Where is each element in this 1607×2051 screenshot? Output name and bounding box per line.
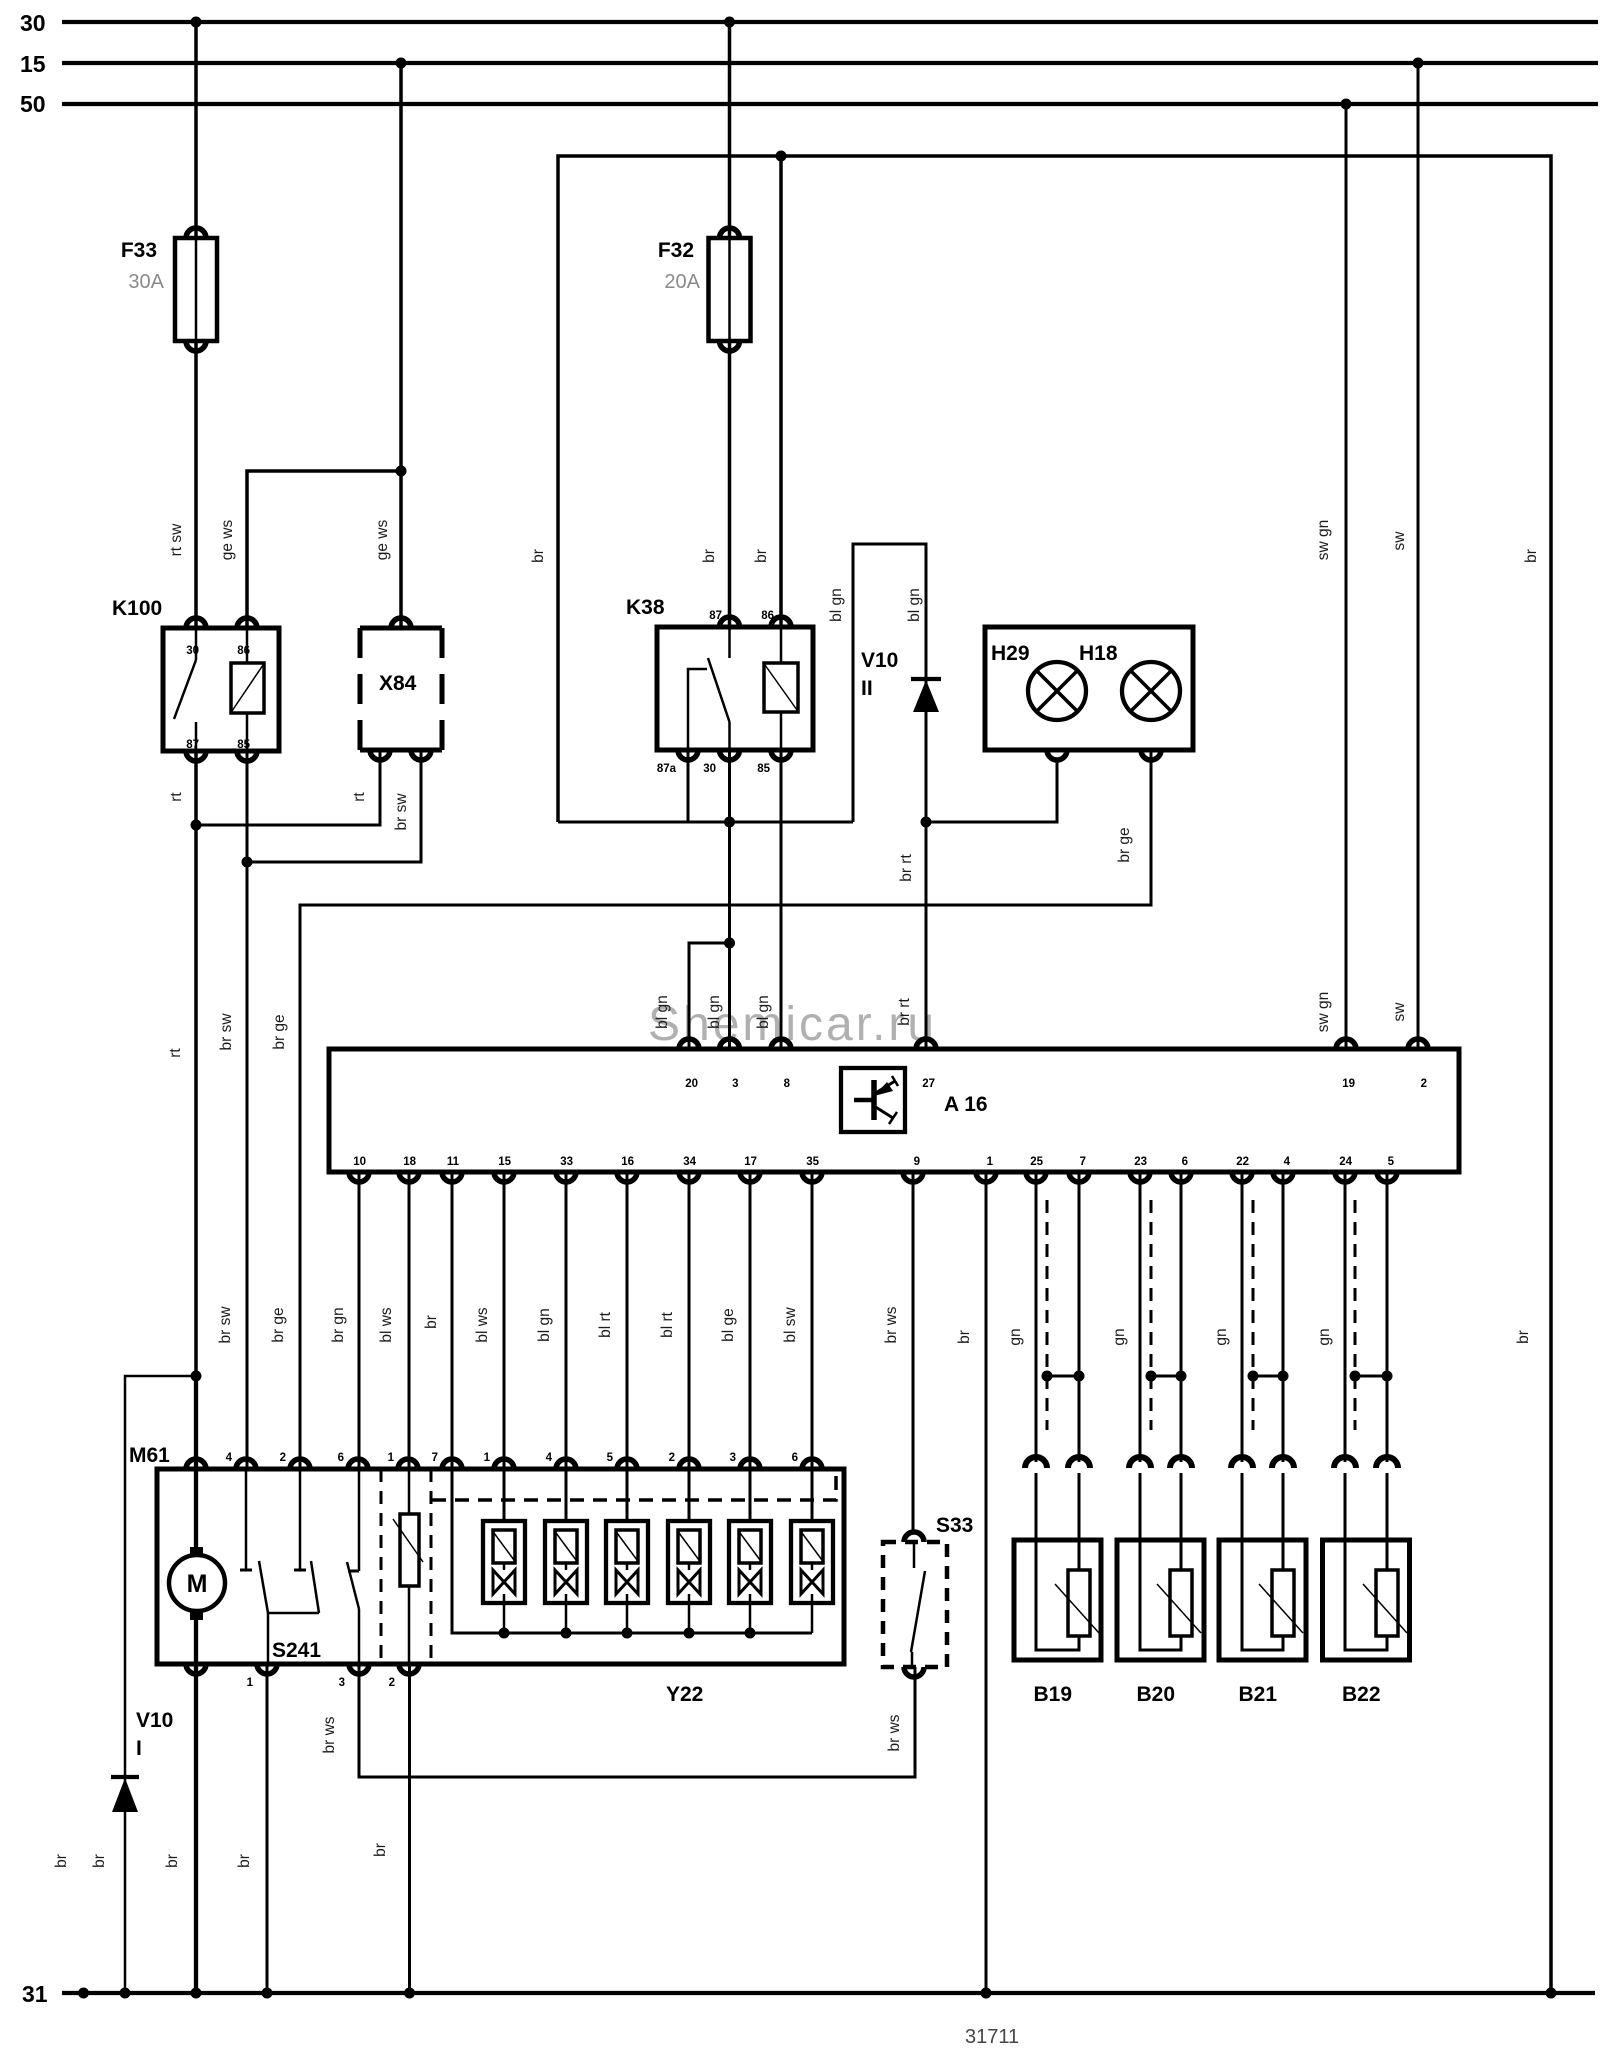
sensor B19 box [1014,1540,1101,1660]
V10 II branch [853,544,926,1049]
svg-text:22: 22 [1236,1156,1249,1168]
wire bl gn injector [565,1172,568,1469]
S241 contact 4 stub [245,1469,248,1570]
injector 5 wire bottom [749,1563,752,1570]
wire X84 left to rt [196,750,380,825]
svg-text:27: 27 [922,1078,935,1090]
K100 switch 87 stub [195,722,198,751]
lamp box H29 H18 [985,627,1193,750]
M61 top pin motor [186,1459,206,1469]
injector 2 coil [555,1530,577,1563]
A16 top pin 8 [771,1039,791,1049]
wire br ge from H18 [300,750,1151,1469]
svg-text:A 16: A 16 [944,1093,988,1116]
svg-text:Shemicar.ru: Shemicar.ru [648,998,937,1051]
injector 4 valve [678,1570,689,1594]
A16 transistor box [841,1068,905,1132]
svg-text:br rt: br rt [896,998,913,1026]
wire sw gn [1345,104,1348,1049]
H29 bottom pin [1047,750,1067,760]
S241 contact 2 stub [299,1469,302,1570]
svg-text:K38: K38 [626,596,665,619]
svg-text:bl sw: bl sw [782,1307,799,1343]
injector 1 wire bottom [503,1563,506,1570]
wire br pin11 [451,1172,454,1469]
wire K38-30 to A16 pin3 [728,750,731,1049]
A16 top pin 20 [679,1039,699,1049]
junction bus30/F32 [724,17,735,28]
A16 bottom pin 10 [349,1172,369,1182]
Y22 dashed boundary [432,1469,836,1500]
junction brsw/X84 [242,857,253,868]
fuse F32 inner wire [728,238,731,341]
svg-text:br: br [372,1843,389,1857]
svg-text:V10: V10 [136,1709,173,1732]
sensor B20 element [1170,1570,1192,1636]
injector 3 wire top [626,1469,629,1521]
svg-text:3: 3 [339,1677,345,1689]
junction bus31 x409 [404,1988,415,1999]
sensor B19 inner wires [1036,1540,1079,1650]
A16 top pin 19 [1336,1039,1356,1049]
A16 bottom pin 11 [442,1172,462,1182]
wire br gn pin10 [358,1172,361,1469]
K38 coil top stub [780,627,783,663]
svg-text:1: 1 [247,1677,254,1689]
svg-text:30A: 30A [128,271,164,293]
svg-text:bl gn: bl gn [706,995,723,1029]
svg-text:34: 34 [683,1156,696,1168]
svg-text:br ws: br ws [883,1306,900,1343]
wire B22 return lower [1386,1473,1389,1540]
S241 blade 1 [259,1561,268,1613]
svg-text:sw: sw [1391,531,1408,551]
sensor B20 diagonal [1157,1584,1201,1633]
A16 bottom pin 6 [1171,1172,1191,1182]
svg-text:br: br [423,1315,440,1329]
sensor B21 diagonal [1259,1584,1303,1633]
svg-text:1: 1 [388,1452,395,1464]
svg-text:I: I [136,1737,142,1760]
wire B22 return [1386,1172,1389,1462]
wire X84 right brsw [247,750,421,862]
svg-text:X84: X84 [379,672,417,695]
connector break B21 a [1231,1457,1253,1468]
junction rail/K38-86 wire [776,151,787,162]
svg-text:br gn: br gn [330,1307,347,1342]
wire bl rt injector [626,1172,629,1469]
A16 bottom pin 33 [556,1172,576,1182]
svg-text:H29: H29 [991,642,1030,665]
Y22 common rail [452,1469,812,1633]
svg-text:7: 7 [432,1452,438,1464]
svg-text:bl ws: bl ws [378,1307,395,1343]
svg-text:15: 15 [20,51,46,77]
shield link B20 [1151,1375,1181,1378]
svg-text:gn: gn [1316,1328,1333,1345]
A16 bottom pin 5 [1377,1172,1397,1182]
K100 coil top stub [246,628,249,663]
shield link B21 [1253,1375,1283,1378]
K38 pin 30 bottom [720,750,740,760]
svg-text:br: br [956,1330,973,1344]
shield B20 [1150,1200,1153,1430]
svg-text:S241: S241 [272,1639,321,1662]
wire B21 signal lower [1241,1473,1244,1540]
svg-text:3: 3 [730,1452,736,1464]
A16 bottom pin 4 [1273,1172,1293,1182]
injector 4 coil [678,1530,700,1563]
thermistor [400,1514,419,1586]
diode V10 I [111,1775,139,1779]
wire rt from K100 87 [194,751,198,1376]
H18 bottom pin [1141,750,1161,760]
injector 6 valve [801,1570,812,1594]
M61 top pin 4 [236,1459,256,1469]
svg-text:br: br [1523,549,1540,563]
svg-text:br: br [753,549,770,563]
svg-text:gn: gn [1111,1328,1128,1345]
svg-text:19: 19 [1342,1078,1355,1090]
junction bus30/F33 [191,17,202,28]
S241 switch3 stub [358,1469,361,1571]
svg-text:br ge: br ge [270,1307,287,1342]
svg-text:M: M [187,1570,208,1598]
A16 top pin 27 [916,1039,936,1049]
A16 top pin 3 [720,1039,740,1049]
svg-text:85: 85 [757,763,770,775]
svg-text:br sw: br sw [393,793,410,831]
bus 15 [62,61,1598,65]
svg-text:18: 18 [403,1156,416,1168]
svg-text:6: 6 [338,1452,344,1464]
svg-text:S33: S33 [936,1514,973,1537]
svg-text:br sw: br sw [218,1013,235,1051]
sensor B19 diagonal [1055,1584,1099,1633]
svg-text:4: 4 [1284,1156,1291,1168]
svg-text:br: br [530,549,547,563]
svg-text:5: 5 [1388,1156,1395,1168]
injector 3 coil [616,1530,638,1563]
svg-text:15: 15 [498,1156,511,1168]
junction bus31 x83 [78,1988,89,1999]
injector 6 body [791,1521,833,1603]
svg-text:10: 10 [353,1156,366,1168]
junction bus31 x1551 [1546,1988,1557,1999]
S33 bottom pin [904,1667,924,1677]
shield link B19 [1047,1375,1079,1378]
K100 coil [231,663,264,713]
wire B22 signal lower [1344,1473,1347,1540]
fuse F32 [709,238,751,341]
K38 coil diagonal [765,665,797,710]
junction bus31 x267 [262,1988,273,1999]
injector 5 coil [739,1530,761,1563]
svg-text:17: 17 [744,1156,757,1168]
fuse F32 top pin [720,228,740,238]
K38 87a stub [688,669,707,750]
svg-text:F33: F33 [121,239,157,262]
svg-text:bl gn: bl gn [755,995,772,1029]
svg-text:rt: rt [168,792,185,802]
bus 31 [62,1991,1595,1995]
fuse F32 bottom pin [720,341,740,351]
bus 30 [62,20,1598,24]
wire to H29 [926,762,1057,822]
injector 1 body [483,1521,525,1603]
wire B20 return [1180,1172,1183,1462]
svg-text:br: br [701,549,718,563]
S241 output wire [267,1613,270,1664]
K38 pin 87 top [720,617,740,627]
S241 switch3 out [358,1609,361,1664]
relay K38 box [657,627,813,750]
wire pin20 link [689,943,730,1049]
wire F32 top [728,22,732,238]
junction rail 4 [684,1628,695,1639]
ECU A16 box [329,1049,1459,1172]
svg-text:6: 6 [1182,1156,1188,1168]
svg-text:B20: B20 [1137,1683,1176,1706]
svg-text:br: br [164,1854,181,1868]
svg-text:br: br [53,1854,70,1868]
svg-text:sw gn: sw gn [1315,520,1332,561]
injector 4 wire bottom [688,1563,691,1570]
junction pin20 link [724,938,735,949]
K38 switch blade [708,658,730,722]
svg-text:bl ws: bl ws [474,1307,491,1343]
svg-text:11: 11 [447,1156,460,1168]
wire K38-85 to A16 pin8 [780,750,783,1049]
sensor B22 element [1376,1570,1398,1636]
K38 coil [764,663,798,712]
injector 1 wire top [503,1469,506,1521]
wire br pin1 to bus31 [985,1172,988,1993]
K100 switch 30 stub [195,628,198,660]
junction bus31 x986 [981,1988,992,1999]
injector 5 valve [739,1570,750,1594]
svg-text:2: 2 [280,1452,286,1464]
diode V10 II [911,677,941,681]
svg-text:br: br [91,1854,108,1868]
svg-text:M61: M61 [129,1444,170,1467]
svg-text:H18: H18 [1079,642,1118,665]
svg-text:2: 2 [669,1452,675,1464]
wire br to K38 86 [779,156,783,627]
svg-text:br ge: br ge [1116,827,1133,862]
svg-text:4: 4 [546,1452,553,1464]
injector 3 valve [616,1570,627,1594]
A16 bottom pin 9 [903,1172,923,1182]
wire br ws return [359,1664,915,1777]
sensor B22 inner wires [1345,1540,1387,1650]
S33 stub top [913,1542,916,1568]
injector 5 wire top [749,1469,752,1521]
svg-text:1: 1 [484,1452,491,1464]
ground rail top [558,156,1551,1993]
sensor B22 diagonal [1363,1584,1407,1633]
wire B20 signal lower [1139,1473,1142,1540]
connector X84 box [360,628,442,750]
svg-text:br: br [1515,1330,1532,1344]
injector 2 valve [555,1570,566,1594]
svg-text:8: 8 [784,1078,791,1090]
A16 bottom pin 23 [1130,1172,1150,1182]
svg-text:31711: 31711 [965,2026,1019,2048]
svg-text:87a: 87a [657,763,677,775]
injector 5 body [729,1521,771,1603]
injector 6 wire bottom [811,1563,814,1570]
svg-text:br ws: br ws [886,1714,903,1751]
thermistor stub top [408,1469,411,1514]
K38 pin 86 top [771,617,791,627]
injector 2 wire top [565,1469,568,1521]
svg-text:87: 87 [709,610,722,622]
svg-text:rt: rt [351,792,368,802]
connector break B19 a [1025,1457,1047,1468]
A16 bottom pin 7 [1069,1172,1089,1182]
injector 3 body [606,1521,648,1603]
wire rt sw F33 top [194,22,198,238]
bus 50 [62,102,1598,106]
A16 bottom pin 17 [740,1172,760,1182]
junction rail 5 [745,1628,756,1639]
wire B19 return lower [1078,1473,1081,1540]
junction bus15/sw [1413,58,1424,69]
A16 bottom pin 1 [976,1172,996,1182]
injector 2 body [545,1521,587,1603]
shield B21 [1252,1200,1255,1430]
A16 bottom pin 35 [802,1172,822,1182]
junction rail 1 [499,1628,510,1639]
svg-text:br: br [236,1854,253,1868]
S241 switch3 blade [347,1562,359,1609]
wire ge ws main [399,63,403,628]
svg-text:br ge: br ge [271,1014,288,1049]
K38 switch 87 stub [728,627,731,658]
wire ge ws link to K100 86 [247,471,401,628]
K100 pin 86 top [237,618,257,628]
A16 bottom pin 16 [617,1172,637,1182]
wire br to K38 87 [728,341,732,627]
unit M61 box [157,1469,844,1664]
fuse F33 [175,238,217,341]
K38 87a down wire [687,750,690,822]
shield B22 [1354,1200,1357,1430]
svg-text:sw gn: sw gn [1315,992,1332,1033]
svg-text:B22: B22 [1342,1683,1381,1706]
junction rt/V10I [191,1371,202,1382]
S33 blade [911,1571,925,1652]
K100 switch blade [174,660,196,719]
M61 separator dashed 1 [380,1469,383,1664]
ground link wire [558,821,853,824]
A16 top pin 2 [1408,1039,1428,1049]
wire rt to M61 motor [194,1376,198,1469]
svg-text:20A: 20A [664,271,700,293]
svg-text:gn: gn [1213,1328,1230,1345]
svg-text:bl gn: bl gn [828,588,845,622]
svg-text:bl gn: bl gn [906,588,923,622]
sensor B21 box [1219,1540,1306,1660]
junction bus50/swgn [1341,99,1352,110]
svg-text:2: 2 [389,1677,395,1689]
lamp H18 [1122,662,1180,720]
M61 bottom pin 3 [349,1664,369,1674]
S33 top pin [904,1532,924,1542]
K100 pin 87 bottom [186,751,206,761]
svg-text:br ws: br ws [321,1716,338,1753]
wire bl ws pin18 [408,1172,411,1469]
connector break B20 a [1129,1457,1151,1468]
svg-text:31: 31 [22,1981,48,2007]
wire B19 signal lower [1035,1473,1038,1540]
sensor B21 inner wires [1242,1540,1283,1650]
svg-text:9: 9 [914,1156,920,1168]
injector 1 valve [493,1570,504,1594]
svg-text:sw: sw [1391,1002,1408,1022]
M61 top pin 7 [442,1459,462,1469]
svg-text:bl ge: bl ge [720,1308,737,1342]
M61 top pin 3 [740,1459,760,1469]
svg-text:20: 20 [685,1078,698,1090]
junction bus31 x196 [191,1988,202,1999]
svg-text:V10: V10 [861,649,898,672]
motor M wire top [194,1469,198,1556]
wire rt sw to K100 [194,341,198,628]
svg-text:bl rt: bl rt [597,1311,614,1338]
wire br sw from K100 85 [246,751,249,1469]
wire B22 signal [1344,1172,1347,1462]
svg-text:II: II [861,677,873,700]
K38 pin 85 bottom [771,750,791,760]
wire br ws pin9 to S33 [912,1172,915,1531]
injector 4 body [668,1521,710,1603]
K38 switch 30 stub [728,722,731,750]
M61 top pin 6 [348,1459,368,1469]
wire B21 return lower [1282,1473,1285,1540]
relay K100 box [163,628,279,751]
injector 4 wire top [688,1469,691,1521]
shield B19 [1046,1200,1049,1430]
wire motor to bus31 [194,1664,198,1993]
switch S33 box [883,1542,947,1667]
junction rail 2 [561,1628,572,1639]
svg-text:23: 23 [1134,1156,1147,1168]
wire B21 return [1282,1172,1285,1462]
svg-text:1: 1 [987,1156,994,1168]
M61 top pin 2 [679,1459,699,1469]
svg-text:33: 33 [560,1156,573,1168]
svg-text:2: 2 [1421,1078,1427,1090]
svg-text:B21: B21 [1239,1683,1278,1706]
svg-text:br sw: br sw [217,1306,234,1344]
junction rail 3 [622,1628,633,1639]
svg-text:rt: rt [167,1048,184,1058]
fuse F33 inner wire [195,238,198,341]
A16 bottom pin 22 [1232,1172,1252,1182]
svg-text:3: 3 [732,1078,738,1090]
svg-text:25: 25 [1030,1156,1043,1168]
thermistor diagonal [393,1519,423,1562]
S241 common bar [268,1612,319,1615]
K100 pin 85 bottom [237,751,257,761]
svg-text:50: 50 [20,91,46,117]
fuse F33 bottom pin [186,341,206,351]
svg-text:30: 30 [703,763,716,775]
svg-text:16: 16 [621,1156,634,1168]
connector break B21 b [1272,1457,1294,1468]
